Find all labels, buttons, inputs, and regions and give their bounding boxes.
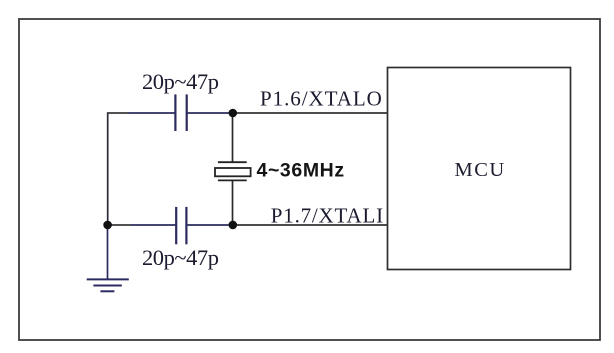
wire bottom rail node B to MCU pin XTALI — [233, 224, 388, 226]
wire top rail C1 to node A — [187, 112, 233, 114]
wire top rail C1 left lead — [129, 112, 176, 114]
wire top rail node A to MCU pin XTALO — [233, 112, 388, 114]
wire bottom rail node C stub — [108, 224, 131, 226]
svg-text:20p~47p: 20p~47p — [142, 69, 219, 94]
wire ground stub — [107, 225, 109, 279]
node C junction dot — [103, 221, 112, 230]
capacitor C1 — [175, 94, 186, 131]
wire crystal bottom stub — [232, 181, 234, 226]
MCU U1 — [388, 68, 571, 270]
wire crystal top stub — [232, 113, 234, 162]
node A junction dot — [229, 109, 238, 118]
wire left vertical (top rail to bottom rail) — [107, 113, 109, 225]
svg-text:P1.7/XTALI: P1.7/XTALI — [271, 203, 384, 227]
capacitor C2 — [176, 207, 186, 244]
svg-text:20p~47p: 20p~47p — [142, 245, 219, 270]
svg-text:4~36MHz: 4~36MHz — [257, 160, 345, 182]
svg-text:P1.6/XTALO: P1.6/XTALO — [260, 87, 383, 111]
wire top rail corner stub — [107, 112, 129, 114]
node B junction dot — [229, 221, 238, 230]
wire bottom rail C2 to node B — [186, 224, 233, 226]
crystal Y1 — [215, 162, 251, 180]
wire bottom rail C2 left lead — [131, 224, 177, 226]
ground — [87, 279, 129, 291]
svg-text:MCU: MCU — [455, 159, 506, 181]
